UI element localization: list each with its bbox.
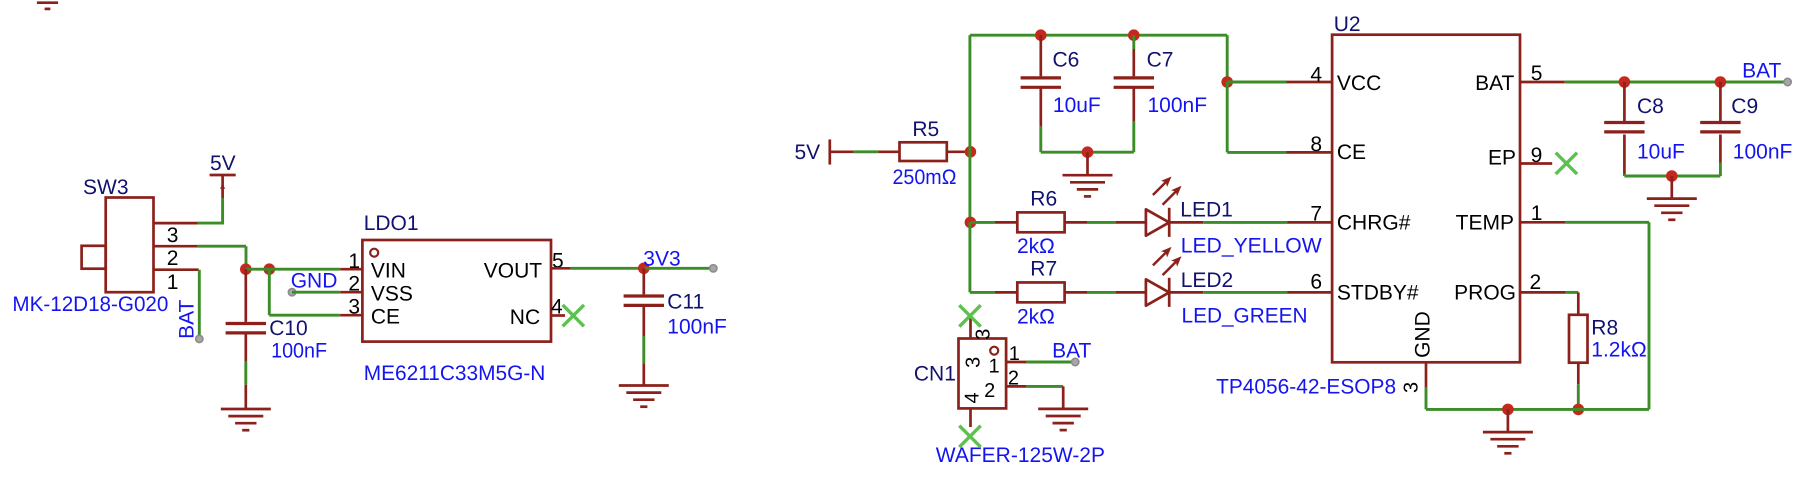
- svg-text:1: 1: [989, 355, 1000, 377]
- svg-text:4: 4: [1310, 63, 1322, 86]
- wire bottom gnd rail: [1426, 408, 1649, 411]
- wire to R6: [970, 221, 1017, 224]
- pin number 5 (LDO1): [552, 250, 564, 273]
- svg-text:100nF: 100nF: [271, 339, 327, 362]
- capacitor C11: [624, 268, 664, 385]
- label C6: [1053, 49, 1080, 72]
- node C7 top junction: [1128, 29, 1140, 41]
- wire to U2 VCC pin 4: [1227, 81, 1332, 84]
- wire SW3 pin2 to node A: [154, 246, 247, 269]
- svg-text:MK-12D18-G020: MK-12D18-G020: [12, 293, 168, 316]
- svg-text:LED2: LED2: [1181, 269, 1234, 292]
- pin name VOUT: [484, 260, 543, 283]
- node C8 C9 rail junction: [1666, 170, 1678, 182]
- wire LED2 to U2 STDBY# pin 6: [1169, 291, 1332, 294]
- capacitor C9: [1700, 82, 1740, 176]
- svg-text:R7: R7: [1030, 258, 1057, 281]
- value ME6211C33M5G-N: [364, 362, 546, 385]
- wire node A to node B to LDO1 VIN: [246, 268, 363, 271]
- pin number 1 (SW3): [167, 271, 179, 294]
- value 2kΩ (R7): [1017, 305, 1055, 328]
- resistor R7: [1017, 282, 1064, 302]
- power port 5V (left): [210, 175, 236, 189]
- pin name GND (U2, rotated): [1412, 311, 1435, 358]
- svg-text:4: 4: [962, 392, 984, 403]
- svg-text:CHRG#: CHRG#: [1337, 211, 1411, 234]
- svg-text:U2: U2: [1334, 13, 1361, 36]
- wire 5V to R5: [830, 150, 900, 153]
- label C8: [1637, 95, 1664, 118]
- svg-text:TP4056-42-ESOP8: TP4056-42-ESOP8: [1216, 376, 1396, 399]
- label CN1: [914, 363, 956, 386]
- svg-text:2: 2: [348, 272, 360, 295]
- capacitor C7: [1114, 35, 1154, 152]
- wire U2 GND pin 3 down: [1425, 362, 1428, 409]
- svg-text:C10: C10: [269, 317, 308, 340]
- pin number 3 (CN1 outside, rotated): [973, 329, 995, 340]
- pin number 3 (U2, rotated): [1401, 382, 1423, 393]
- svg-text:ME6211C33M5G-N: ME6211C33M5G-N: [364, 362, 546, 385]
- pin name CE (U2): [1337, 141, 1366, 164]
- wire C8 C9 ground rail: [1624, 175, 1720, 178]
- net label LED_GREEN: [1182, 304, 1308, 327]
- pin number 3 (LDO1): [348, 296, 360, 319]
- svg-text:2: 2: [167, 247, 179, 270]
- wire to R7: [970, 291, 1017, 294]
- diode LED2: [1146, 278, 1169, 307]
- pin name CHRG#: [1337, 211, 1411, 234]
- svg-text:3: 3: [1401, 382, 1423, 393]
- svg-text:LED_GREEN: LED_GREEN: [1182, 304, 1308, 327]
- svg-text:5V: 5V: [210, 152, 236, 175]
- svg-text:3: 3: [348, 296, 360, 319]
- capacitor C8: [1604, 82, 1644, 176]
- node C6 top junction: [1035, 29, 1047, 41]
- pin number 4 (U2): [1310, 63, 1322, 86]
- pin name VCC: [1337, 72, 1381, 95]
- svg-text:VOUT: VOUT: [484, 260, 543, 283]
- ground (C11): [619, 386, 669, 407]
- value 10uF (C8): [1637, 141, 1685, 164]
- svg-text:CE: CE: [371, 306, 400, 329]
- svg-text:3: 3: [963, 357, 985, 368]
- value 100nF (C9): [1733, 141, 1793, 164]
- node B junction: [264, 263, 276, 275]
- wire VCC branch down to CE row: [1226, 82, 1229, 152]
- svg-text:C11: C11: [667, 291, 704, 314]
- label U2: [1334, 13, 1361, 36]
- pin name BAT (U2): [1475, 72, 1514, 95]
- wire VOUT to 3V3: [551, 267, 644, 270]
- svg-text:3: 3: [973, 329, 995, 340]
- svg-text:2: 2: [984, 380, 995, 402]
- label C10: [269, 317, 308, 340]
- svg-text:100nF: 100nF: [1148, 94, 1208, 117]
- svg-text:C7: C7: [1147, 49, 1174, 72]
- ground (C10): [221, 409, 271, 430]
- wire R5 node up to top rail: [968, 35, 971, 152]
- svg-text:BAT: BAT: [175, 299, 198, 338]
- label LED2: [1181, 269, 1234, 292]
- svg-text:VIN: VIN: [371, 260, 406, 283]
- net flag GND (at LDO1 VSS): [288, 270, 337, 296]
- label R6: [1030, 188, 1057, 211]
- switch SW3: [82, 198, 154, 293]
- value TP4056-42-ESOP8: [1216, 376, 1396, 399]
- net label LED_YELLOW: [1181, 235, 1322, 258]
- svg-text:LED1: LED1: [1180, 199, 1233, 222]
- node ground rail junction: [1082, 146, 1094, 158]
- pin 4 stub no-connect (CN1 bottom): [959, 408, 980, 447]
- pin name PROG: [1454, 282, 1516, 305]
- svg-text:VSS: VSS: [371, 283, 413, 306]
- node A junction: [240, 263, 252, 275]
- wire R8 down to gnd rail: [1577, 363, 1580, 410]
- pin number 2 (LDO1): [348, 272, 360, 295]
- pin name STDBY#: [1337, 281, 1419, 304]
- svg-text:100nF: 100nF: [667, 316, 727, 339]
- net flag BAT (right): [1742, 59, 1791, 85]
- pin number 3 (SW3): [167, 224, 179, 247]
- wire CN1 pin2 to ground: [1006, 386, 1063, 409]
- wire to U2 CE pin 8: [1227, 151, 1332, 154]
- label SW3: [83, 176, 129, 199]
- pin number 9 (U2): [1531, 144, 1543, 167]
- pin number 1 (CN1 outside): [1009, 343, 1020, 365]
- pin number 6 (U2): [1310, 271, 1322, 294]
- power port 5V (right): [828, 139, 831, 164]
- svg-text:R8: R8: [1591, 317, 1618, 340]
- label 5V (left): [210, 152, 236, 175]
- ground (C6 C7): [1063, 152, 1113, 196]
- svg-text:LED_YELLOW: LED_YELLOW: [1181, 235, 1322, 258]
- ground (clipped at top edge): [37, 3, 58, 9]
- pin number 2 (CN1 inside): [984, 380, 995, 402]
- svg-text:3V3: 3V3: [643, 247, 680, 270]
- wire top rail: [970, 34, 1227, 37]
- wire R5 node down to R6 node: [968, 152, 971, 223]
- svg-text:GND: GND: [1412, 311, 1435, 358]
- value MK-12D18-G020: [12, 293, 168, 316]
- label C9: [1731, 95, 1758, 118]
- value 1.2kΩ: [1591, 339, 1646, 362]
- svg-text:2: 2: [1530, 271, 1542, 294]
- pin number 1 (LDO1): [348, 250, 360, 273]
- wire R6 node down to R7 row: [968, 222, 971, 292]
- svg-text:BAT: BAT: [1742, 59, 1781, 82]
- svg-text:EP: EP: [1488, 146, 1516, 169]
- value WAFER-125W-2P: [936, 444, 1105, 467]
- label C11: [667, 291, 704, 314]
- svg-text:VCC: VCC: [1337, 72, 1381, 95]
- pin name VIN: [371, 260, 406, 283]
- charger IC U2 body: [1332, 35, 1520, 363]
- svg-text:PROG: PROG: [1454, 282, 1516, 305]
- label 5V (right): [795, 141, 821, 164]
- pin name NC: [510, 306, 540, 329]
- svg-text:SW3: SW3: [83, 176, 129, 199]
- svg-text:10uF: 10uF: [1637, 141, 1685, 164]
- svg-text:LDO1: LDO1: [364, 212, 419, 235]
- svg-text:1: 1: [167, 271, 179, 294]
- pin number 4 (LDO1): [551, 295, 563, 318]
- svg-text:GND: GND: [291, 270, 338, 293]
- node C9 top junction: [1715, 76, 1727, 88]
- wire U2 TEMP pin 1 down to gnd rail: [1520, 222, 1649, 409]
- pin number 2 (SW3): [167, 247, 179, 270]
- wire U2 PROG pin 2 to R8: [1520, 292, 1578, 314]
- pin number 1 (CN1 inside): [989, 355, 1000, 377]
- svg-text:250mΩ: 250mΩ: [893, 166, 957, 189]
- label LDO1: [364, 212, 419, 235]
- capacitor C10: [226, 269, 266, 409]
- label R8: [1591, 317, 1618, 340]
- wire U2 BAT pin 5 to BAT flag: [1520, 81, 1788, 84]
- node R8 gnd junction: [1573, 404, 1585, 416]
- LED2 emission arrows: [1153, 247, 1182, 275]
- resistor R5: [900, 142, 971, 161]
- node R6 junction: [965, 217, 977, 229]
- wire SW3 pin1 to BAT flag: [154, 270, 200, 339]
- value 100nF (C11): [667, 316, 727, 339]
- resistor R6: [1017, 212, 1064, 232]
- svg-text:1.2kΩ: 1.2kΩ: [1591, 339, 1646, 362]
- wire rail down to VCC branch: [1226, 35, 1229, 82]
- pin number 3 (CN1 inside, rotated): [963, 357, 985, 368]
- svg-text:R5: R5: [912, 118, 939, 141]
- svg-text:6: 6: [1310, 271, 1322, 294]
- resistor R8: [1569, 315, 1588, 363]
- svg-text:100nF: 100nF: [1733, 141, 1793, 164]
- svg-text:8: 8: [1310, 133, 1322, 156]
- pin NC no-connect: [551, 305, 584, 326]
- node R5 out junction: [965, 146, 977, 158]
- svg-text:7: 7: [1310, 203, 1322, 226]
- pin name EP: [1488, 146, 1516, 169]
- label LED1: [1180, 199, 1233, 222]
- pin name VSS: [371, 283, 413, 306]
- diode LED1: [1146, 208, 1169, 237]
- pin name TEMP: [1456, 211, 1514, 234]
- svg-text:C8: C8: [1637, 95, 1664, 118]
- value 10uF (C6): [1053, 94, 1101, 117]
- net flag BAT (CN1): [1052, 340, 1091, 366]
- svg-text:C9: C9: [1731, 95, 1758, 118]
- pin number 5 (U2): [1531, 62, 1543, 85]
- svg-text:2kΩ: 2kΩ: [1017, 235, 1055, 258]
- ground (C8 C9): [1647, 176, 1697, 220]
- node C8 top junction: [1619, 76, 1631, 88]
- node gnd rail junction: [1502, 404, 1514, 416]
- regulator LDO1 body: [362, 240, 551, 342]
- wire LED1 to U2 CHRG# pin 7: [1169, 221, 1332, 224]
- value 100nF (C10): [271, 339, 327, 362]
- wire node B down to LDO1 CE: [269, 269, 362, 315]
- svg-text:10uF: 10uF: [1053, 94, 1101, 117]
- pin number 8 (U2): [1310, 133, 1322, 156]
- LED1 emission arrows: [1153, 177, 1182, 205]
- label R5: [912, 118, 939, 141]
- ground (U2): [1483, 409, 1533, 453]
- pin EP no-connect: [1520, 153, 1577, 174]
- svg-text:BAT: BAT: [1475, 72, 1514, 95]
- label C7: [1147, 49, 1174, 72]
- svg-text:R6: R6: [1030, 188, 1057, 211]
- net flag 3V3: [643, 247, 717, 272]
- svg-text:CN1: CN1: [914, 363, 956, 386]
- svg-text:TEMP: TEMP: [1456, 211, 1514, 234]
- value 250mΩ: [893, 166, 957, 189]
- wire R7 to LED2: [1065, 291, 1146, 294]
- pin number 4 (CN1 inside, rotated): [962, 392, 984, 403]
- wire GND flag to LDO1 VSS: [292, 291, 362, 294]
- svg-text:NC: NC: [510, 306, 540, 329]
- svg-text:CE: CE: [1337, 141, 1366, 164]
- wire SW3 pin3 to 5V: [154, 176, 225, 225]
- net flag BAT (at SW3): [175, 299, 203, 342]
- svg-text:1: 1: [348, 250, 360, 273]
- pin number 1 (U2): [1531, 202, 1543, 225]
- connector CN1 body: [959, 339, 1007, 409]
- pin name CE (LDO1): [371, 306, 400, 329]
- svg-text:5V: 5V: [795, 141, 821, 164]
- svg-text:BAT: BAT: [1052, 340, 1091, 363]
- wire C6 C7 ground rail: [1041, 151, 1134, 154]
- capacitor C6: [1021, 35, 1061, 152]
- svg-text:2kΩ: 2kΩ: [1017, 305, 1055, 328]
- label R7: [1030, 258, 1057, 281]
- svg-text:3: 3: [167, 224, 179, 247]
- wire R6 to LED1: [1065, 221, 1146, 224]
- pin 3 stub no-connect (CN1 top): [959, 305, 980, 338]
- svg-text:STDBY#: STDBY#: [1337, 281, 1419, 304]
- pin number 2 (U2): [1530, 271, 1542, 294]
- node 3V3 junction: [638, 263, 650, 275]
- pin number 7 (U2): [1310, 203, 1322, 226]
- svg-text:C6: C6: [1053, 49, 1080, 72]
- ground (CN1): [1038, 409, 1088, 430]
- value 100nF (C7): [1148, 94, 1208, 117]
- wire CN1 pin1 to BAT flag: [1006, 361, 1075, 364]
- node VCC branch junction: [1221, 76, 1233, 88]
- value 2kΩ (R6): [1017, 235, 1055, 258]
- pin number 2 (CN1 outside): [1008, 367, 1019, 389]
